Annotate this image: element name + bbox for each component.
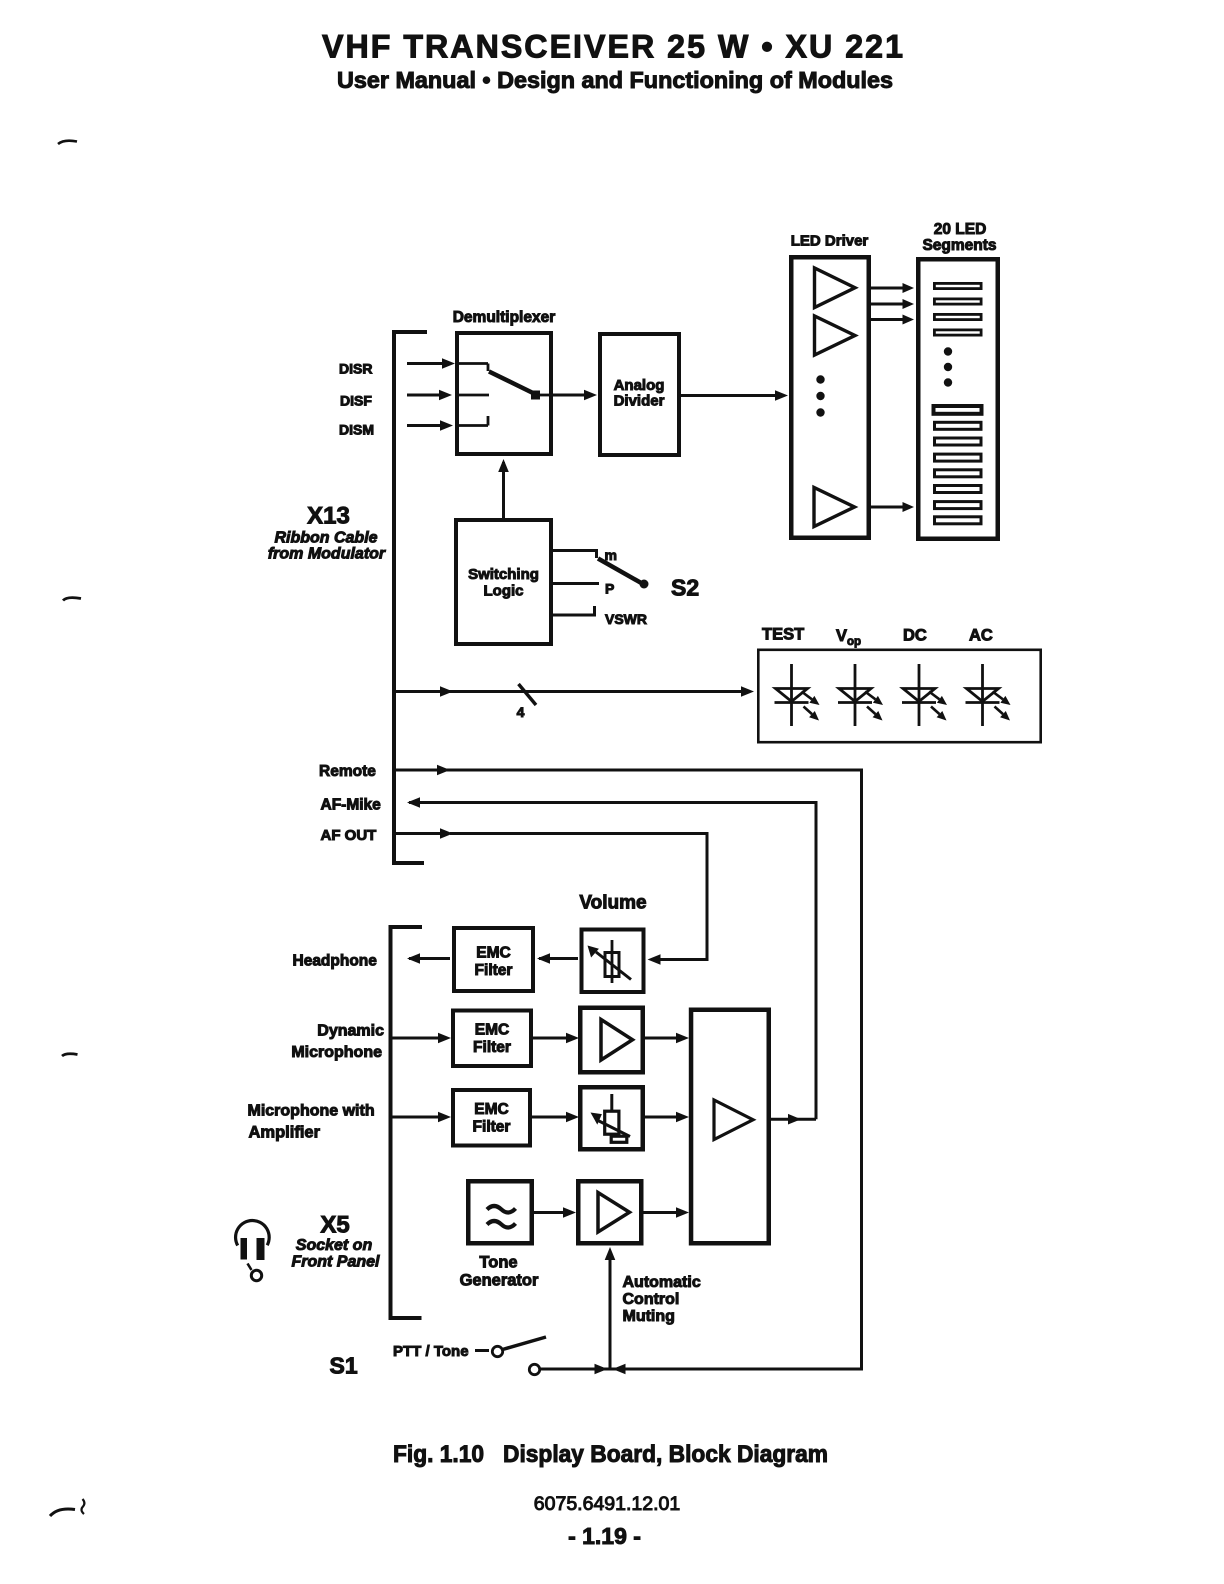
demultiplexer internal contact DISF xyxy=(457,394,489,397)
svg-text:Tone: Tone xyxy=(479,1254,517,1272)
svg-text:Automatic: Automatic xyxy=(623,1274,701,1291)
LED segment bar 4 xyxy=(934,330,981,335)
headphone socket icon xyxy=(236,1221,270,1246)
switch S2 arm xyxy=(598,559,643,585)
wire tone generator to amplifier 2 xyxy=(534,1211,564,1214)
wire EMC filter 3 to attenuator xyxy=(532,1116,567,1119)
wire EMC filter 2 to amplifier 1 xyxy=(533,1037,567,1040)
LED driver amplifier triangle 3 xyxy=(814,488,855,527)
wire AF OUT to volume potentiometer xyxy=(659,958,709,961)
svg-text:X5: X5 xyxy=(320,1212,349,1239)
LED segment bar 6 xyxy=(935,422,982,429)
svg-text:DISF: DISF xyxy=(340,393,372,409)
svg-text:S2: S2 xyxy=(671,575,699,601)
wire LED driver to segments 1 xyxy=(871,287,903,290)
LED segments ellipsis dots xyxy=(944,347,952,355)
svg-text:Demultiplexer: Demultiplexer xyxy=(453,309,556,326)
wire LED driver to segments 3 xyxy=(871,318,903,321)
LED driver ellipsis dots xyxy=(816,375,824,383)
attenuator box xyxy=(580,1087,643,1149)
wire Remote vertical down xyxy=(860,770,863,1371)
svg-text:Filter: Filter xyxy=(473,1039,511,1056)
EMC filter box 2 xyxy=(453,1011,531,1067)
svg-text:Vop: Vop xyxy=(836,627,861,648)
svg-text:AC: AC xyxy=(969,627,993,645)
svg-text:DISM: DISM xyxy=(339,422,374,438)
svg-text:Generator: Generator xyxy=(460,1272,539,1290)
LED segment bar 2 xyxy=(934,299,981,304)
svg-text:Control: Control xyxy=(623,1291,680,1308)
svg-text:X13: X13 xyxy=(307,503,350,530)
wire DISF input xyxy=(407,394,440,397)
wire demultiplexer to analog divider xyxy=(553,394,585,397)
svg-text:Front Panel: Front Panel xyxy=(291,1254,380,1271)
svg-text:Volume: Volume xyxy=(579,893,646,914)
LED segment bar 8 xyxy=(935,454,982,461)
LED driver box xyxy=(791,257,869,538)
demultiplexer internal contact DISM xyxy=(457,424,488,427)
LED segment bar 11 xyxy=(935,502,982,509)
wire muting bus xyxy=(540,1368,862,1371)
wire output m xyxy=(553,549,598,552)
wire X5 to EMC filter 2 xyxy=(393,1037,440,1040)
wire attenuator to mixer xyxy=(645,1116,677,1119)
wire switching logic to demultiplexer xyxy=(502,462,505,518)
wire volume potentiometer to EMC filter xyxy=(537,953,550,964)
wire DISM input xyxy=(407,424,441,427)
LED segment bar 1 xyxy=(934,283,981,288)
LED driver amplifier triangle 2 xyxy=(815,316,856,355)
LED segments box xyxy=(918,259,998,539)
svg-text:Divider: Divider xyxy=(614,393,665,410)
svg-text:Microphone with: Microphone with xyxy=(248,1103,375,1120)
svg-text:EMC: EMC xyxy=(476,945,510,962)
switch S1 contact xyxy=(475,1349,489,1352)
wire AF-Mike xyxy=(407,797,420,808)
tone generator box xyxy=(468,1181,532,1243)
margin scan mark 4 xyxy=(50,1509,75,1516)
mixer amplifier triangle xyxy=(714,1100,753,1140)
switch S1 lower contact xyxy=(529,1364,539,1374)
analog divider box xyxy=(600,334,679,455)
LED diode Vop xyxy=(854,664,857,726)
LED segment bar 3 xyxy=(934,314,981,319)
junction arrows xyxy=(595,1364,608,1375)
margin scan mark 3 xyxy=(62,1054,78,1056)
connector X5 bracket xyxy=(391,927,423,1318)
switching logic box xyxy=(456,520,551,644)
attenuator symbol xyxy=(610,1094,613,1110)
demultiplexer internal contact DISR xyxy=(457,362,488,365)
svg-text:Segments: Segments xyxy=(922,237,996,254)
svg-text:Filter: Filter xyxy=(475,962,513,979)
wire analog divider to LED driver xyxy=(681,394,776,397)
LED segment bar 9 xyxy=(935,470,982,477)
bus slash xyxy=(519,684,537,705)
svg-text:User Manual • Design and Funct: User Manual • Design and Functioning of … xyxy=(337,67,893,93)
svg-text:Analog: Analog xyxy=(614,377,665,394)
LED driver amplifier triangle 1 xyxy=(815,268,856,308)
svg-text:Ribbon Cable: Ribbon Cable xyxy=(274,530,377,547)
LED diode DC xyxy=(918,664,921,726)
svg-text:from Modulator: from Modulator xyxy=(268,546,386,563)
wire LED driver to segments 4 xyxy=(871,506,903,509)
EMC filter box 1 xyxy=(454,928,533,991)
wire mixer output vertical up xyxy=(815,803,818,1120)
wire amplifier 2 to mixer xyxy=(644,1211,678,1214)
connector X13 bracket xyxy=(394,332,427,863)
svg-text:Remote: Remote xyxy=(319,763,376,780)
svg-text:Headphone: Headphone xyxy=(293,953,378,970)
svg-text:TEST: TEST xyxy=(762,626,804,644)
volume potentiometer box xyxy=(582,930,644,993)
wire X5 to EMC filter 3 xyxy=(393,1116,440,1119)
svg-text:PTT / Tone: PTT / Tone xyxy=(393,1343,469,1360)
svg-text:Filter: Filter xyxy=(473,1119,511,1136)
switch S1 arm xyxy=(503,1337,547,1350)
tone generator waves symbol xyxy=(487,1206,516,1213)
svg-text:S1: S1 xyxy=(330,1353,358,1379)
wire automatic control muting xyxy=(609,1251,612,1369)
wire LED driver to segments 2 xyxy=(871,303,903,306)
LED segment bar 5 xyxy=(934,406,982,414)
svg-text:Muting: Muting xyxy=(623,1308,675,1325)
svg-text:Amplifier: Amplifier xyxy=(249,1124,321,1142)
wire DISR input xyxy=(407,362,443,365)
wire AF-Mike vertical xyxy=(815,803,818,1120)
wire demultiplexer output xyxy=(538,394,553,397)
svg-text:Switching: Switching xyxy=(468,566,539,583)
wire AF OUT xyxy=(396,832,441,835)
mixer amplifier box xyxy=(691,1010,769,1244)
LED segment bar 10 xyxy=(935,486,982,493)
demultiplexer switch arm xyxy=(489,372,535,395)
svg-text:EMC: EMC xyxy=(474,1101,508,1118)
wire amplifier 1 to mixer xyxy=(645,1037,677,1040)
amplifier box 1 xyxy=(580,1008,643,1073)
wire EMC filter to headphone xyxy=(407,953,420,964)
LED segment bar 7 xyxy=(935,438,982,445)
svg-text:EMC: EMC xyxy=(475,1022,509,1039)
svg-text:6075.6491.12.01: 6075.6491.12.01 xyxy=(534,1493,680,1515)
wire output VSWR xyxy=(553,614,596,617)
svg-text:LED Driver: LED Driver xyxy=(791,233,869,250)
svg-text:AF-Mike: AF-Mike xyxy=(321,797,382,814)
wire 4-line bus to indicator box xyxy=(395,690,440,693)
svg-text:Fig. 1.10 Display Board, Blo: Fig. 1.10 Display Board, Block Diagram xyxy=(393,1441,828,1468)
demultiplexer box xyxy=(457,333,551,454)
amplifier 2 triangle xyxy=(598,1193,630,1233)
svg-text:VSWR: VSWR xyxy=(605,611,647,627)
svg-text:m: m xyxy=(605,547,617,563)
svg-text:P: P xyxy=(605,581,614,597)
amplifier box 2 xyxy=(578,1181,641,1243)
wire output P xyxy=(553,582,599,585)
svg-text:VHF TRANSCEIVER 25 W • XU 221: VHF TRANSCEIVER 25 W • XU 221 xyxy=(322,29,905,65)
indicator LEDs box xyxy=(758,650,1040,742)
LED diode TEST xyxy=(790,664,793,726)
svg-text:4: 4 xyxy=(517,704,525,720)
svg-text:- 1.19 -: - 1.19 - xyxy=(568,1523,641,1549)
margin scan mark 2 xyxy=(63,598,81,601)
svg-text:Dynamic: Dynamic xyxy=(317,1023,384,1040)
svg-text:DISR: DISR xyxy=(339,361,372,377)
wire Remote xyxy=(396,769,437,772)
svg-text:Socket on: Socket on xyxy=(296,1237,373,1254)
svg-text:Microphone: Microphone xyxy=(291,1044,382,1061)
potentiometer symbol xyxy=(611,940,614,983)
wire mixer output xyxy=(771,1118,816,1121)
svg-text:DC: DC xyxy=(903,627,927,645)
margin scan mark 1 xyxy=(58,141,77,144)
LED diode AC xyxy=(981,664,984,726)
wire AF OUT vertical down xyxy=(706,834,709,962)
svg-text:Logic: Logic xyxy=(484,583,524,600)
EMC filter box 3 xyxy=(453,1090,530,1146)
LED segment bar 12 xyxy=(935,517,982,524)
amplifier 1 triangle xyxy=(601,1020,633,1061)
svg-text:20 LED: 20 LED xyxy=(934,221,987,238)
svg-text:AF OUT: AF OUT xyxy=(321,827,377,844)
